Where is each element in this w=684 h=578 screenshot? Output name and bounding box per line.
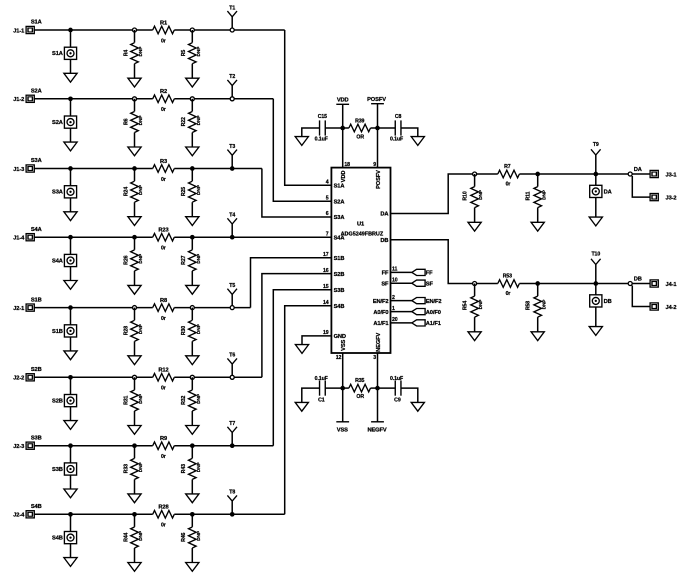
- wire pin DB to output row: [391, 240, 498, 284]
- resistor R28 DNP: [123, 320, 144, 341]
- resistor R44 DNP: [123, 527, 144, 548]
- wire pin to tag A0/F0: [391, 311, 412, 313]
- wire C9 right: [401, 388, 418, 402]
- resistor R28 0r: [153, 505, 175, 529]
- wire R22 to ground: [191, 133, 193, 148]
- svg-text:T6: T6: [229, 353, 235, 359]
- svg-text:0r: 0r: [161, 316, 166, 322]
- svg-text:R26: R26: [123, 255, 129, 264]
- connector J4-2: [650, 303, 676, 311]
- wire junction to R11: [537, 174, 539, 187]
- ground: [128, 563, 141, 572]
- svg-text:C15: C15: [318, 114, 327, 120]
- node at resistor R30: [190, 306, 194, 310]
- junction T9: [593, 172, 598, 177]
- svg-text:S4B: S4B: [334, 304, 345, 310]
- wire R10 to ground: [474, 208, 476, 223]
- wire test point to ground: [595, 198, 597, 218]
- svg-text:T7: T7: [229, 421, 235, 427]
- node at resistor R26: [132, 235, 137, 240]
- wire junction to R58: [537, 284, 539, 297]
- ground at C15: [295, 137, 308, 146]
- wire node to R10: [474, 174, 476, 187]
- wire pin to tag FF: [391, 271, 412, 273]
- svg-text:VSS: VSS: [341, 339, 347, 350]
- test point T9: [591, 142, 601, 174]
- resistor R43 DNP: [181, 458, 202, 479]
- wire R44 to ground: [134, 548, 136, 563]
- svg-text:DNP: DNP: [196, 461, 202, 472]
- svg-text:FF: FF: [382, 271, 389, 277]
- svg-text:0r: 0r: [506, 181, 511, 187]
- wire series resistor to bus: [174, 307, 250, 309]
- junction: [68, 305, 73, 310]
- wire to test point: [70, 446, 72, 463]
- wire test point to ground: [70, 407, 72, 421]
- test point S1B: [52, 325, 77, 337]
- svg-text:POSFV: POSFV: [376, 170, 382, 189]
- svg-text:0r: 0r: [161, 246, 166, 252]
- svg-text:J1-2: J1-2: [13, 97, 24, 103]
- ground: [128, 285, 141, 294]
- svg-text:DNP: DNP: [196, 184, 202, 195]
- wire VSS to R35: [343, 387, 349, 389]
- resistor R9 0r: [153, 436, 175, 460]
- svg-text:T10: T10: [591, 251, 600, 257]
- svg-text:0.1uF: 0.1uF: [315, 137, 328, 143]
- ground: [128, 494, 141, 503]
- resistor R24 DNP: [123, 181, 144, 202]
- wire test point to ground: [70, 337, 72, 351]
- resistor R6 DNP: [123, 112, 144, 133]
- svg-text:0r: 0r: [506, 291, 511, 297]
- svg-text:R12: R12: [158, 368, 168, 374]
- test point S3B: [52, 463, 77, 475]
- junction T5: [230, 306, 234, 310]
- connector J4-1: [650, 280, 676, 288]
- svg-text:R30: R30: [181, 326, 187, 335]
- wire junction to test point DA: [595, 174, 597, 185]
- wire node to R27: [191, 237, 193, 250]
- svg-text:T8: T8: [229, 490, 235, 496]
- node at resistor R33: [132, 443, 137, 448]
- junction T1: [230, 28, 234, 32]
- svg-text:FF: FF: [426, 271, 433, 277]
- svg-text:DB: DB: [604, 299, 612, 305]
- wire node to R25: [191, 169, 193, 182]
- ground: [186, 563, 199, 572]
- svg-text:DNP: DNP: [196, 46, 202, 57]
- wire node to R4: [134, 30, 136, 43]
- wire R5 to ground: [191, 64, 193, 78]
- svg-text:0.1uF: 0.1uF: [390, 137, 403, 143]
- wire C1 left: [302, 388, 320, 402]
- svg-text:DNP: DNP: [196, 323, 202, 334]
- connector J2-4: [13, 511, 34, 519]
- wire R54 to ground: [474, 317, 476, 332]
- test point T2: [227, 74, 237, 99]
- node at resistor R28: [133, 306, 137, 310]
- wire test point to ground: [595, 307, 597, 327]
- svg-text:S2A: S2A: [52, 120, 63, 126]
- connector J2-1: [13, 304, 34, 312]
- wire J1-4 to series resistor: [34, 236, 153, 238]
- junction T4: [230, 235, 235, 240]
- resistor R2 0r: [153, 89, 175, 113]
- node at resistor R10: [473, 172, 477, 176]
- svg-text:POSFV: POSFV: [367, 97, 386, 103]
- wire J1-1 to series resistor: [34, 29, 153, 31]
- ground at C8: [411, 137, 424, 146]
- svg-text:SF: SF: [381, 281, 389, 287]
- svg-text:DNP: DNP: [138, 115, 144, 126]
- svg-text:J2-3: J2-3: [13, 444, 24, 450]
- svg-text:S2B: S2B: [31, 367, 42, 373]
- svg-text:R28: R28: [158, 505, 168, 511]
- wire C8 right: [401, 128, 418, 137]
- wire R6 to ground: [134, 133, 136, 148]
- wire R58 to ground: [537, 317, 539, 332]
- node at resistor R22: [190, 97, 194, 101]
- wire bus to pin S2A: [273, 99, 331, 201]
- svg-text:R8: R8: [160, 298, 167, 304]
- wire R24 to ground: [134, 202, 136, 217]
- svg-text:DB: DB: [634, 277, 642, 283]
- svg-text:C1: C1: [318, 398, 325, 404]
- node DB: [628, 282, 632, 286]
- svg-text:R27: R27: [181, 255, 187, 264]
- wire node to R44: [134, 514, 136, 527]
- resistor R12 0r: [153, 368, 175, 392]
- power flag POSFV: [367, 97, 386, 167]
- svg-text:S1A: S1A: [334, 183, 345, 189]
- wire J2-3 to series resistor: [34, 445, 153, 447]
- node at resistor R44: [132, 512, 137, 517]
- test point DA: [590, 185, 612, 197]
- junction VDD: [340, 126, 345, 131]
- svg-text:R24: R24: [123, 187, 129, 196]
- svg-text:S1B: S1B: [52, 329, 63, 335]
- junction T3: [230, 166, 235, 171]
- svg-text:R6: R6: [123, 118, 129, 125]
- svg-text:EN/F2: EN/F2: [426, 299, 442, 305]
- svg-text:OR: OR: [356, 394, 364, 400]
- connector J1-4: [13, 234, 34, 242]
- svg-text:R11: R11: [526, 191, 532, 200]
- wire to test point: [70, 30, 72, 47]
- svg-text:DNP: DNP: [138, 323, 144, 334]
- svg-text:S4A: S4A: [334, 235, 345, 241]
- wire test point to ground: [70, 60, 72, 74]
- wire branch to J3-2: [632, 176, 650, 197]
- svg-text:DNP: DNP: [478, 189, 484, 200]
- ground: [589, 217, 602, 226]
- svg-text:J1-4: J1-4: [13, 236, 25, 242]
- node at resistor R54: [473, 282, 477, 286]
- ground at C9: [411, 402, 424, 411]
- resistor R46 DNP: [181, 527, 202, 548]
- junction T8: [230, 512, 235, 517]
- node at resistor R6: [133, 97, 137, 101]
- svg-text:T9: T9: [593, 142, 599, 148]
- node at resistor R4: [133, 28, 137, 32]
- resistor R1 0r: [153, 20, 175, 44]
- capacitor C15 0.1uF: [315, 114, 328, 142]
- wire R39 to POSFV: [371, 127, 378, 129]
- svg-text:A1/F1: A1/F1: [373, 321, 388, 327]
- resistor R32 DNP: [181, 390, 202, 411]
- wire R30 to ground: [191, 341, 193, 356]
- svg-text:R31: R31: [123, 395, 129, 404]
- svg-text:U1: U1: [357, 222, 364, 228]
- wire pin to tag SF: [391, 282, 412, 284]
- wire node to R26: [134, 237, 136, 250]
- svg-text:DNP: DNP: [541, 189, 547, 200]
- svg-text:NEGFV: NEGFV: [376, 332, 382, 351]
- wire branch to J4-2: [632, 286, 650, 307]
- test point T3: [227, 144, 237, 169]
- wire R4 to ground: [134, 64, 136, 78]
- connector J1-3: [13, 165, 34, 173]
- test point T1: [227, 5, 237, 30]
- svg-text:R53: R53: [503, 273, 512, 279]
- connector J3-2: [650, 194, 676, 202]
- svg-text:VDD: VDD: [341, 171, 347, 183]
- wire J2-4 to series resistor: [34, 513, 153, 515]
- junction T10: [593, 281, 598, 286]
- test point T4: [227, 213, 237, 238]
- svg-text:S2B: S2B: [52, 399, 63, 405]
- connector J1-1: [13, 26, 34, 34]
- svg-text:S2A: S2A: [31, 89, 42, 95]
- off-page tag SF: [412, 280, 434, 287]
- resistor R7 0r: [498, 164, 520, 188]
- resistor R31 DNP: [123, 390, 144, 411]
- test point S4B: [52, 532, 77, 544]
- wire node to R32: [191, 377, 193, 390]
- wire bus to pin S1A: [285, 30, 332, 185]
- capacitor C1 0.1uF: [315, 376, 328, 404]
- svg-text:T2: T2: [229, 74, 235, 80]
- wire bus to pin S2B: [262, 274, 332, 378]
- wire bus to pin S4A: [251, 236, 332, 238]
- wire node to R33: [134, 446, 136, 459]
- wire C1 right: [325, 387, 342, 389]
- node at resistor R43: [190, 443, 195, 448]
- node at resistor R25: [190, 166, 195, 171]
- ground: [64, 73, 77, 82]
- resistor R10 DNP: [463, 187, 485, 208]
- junction at R11: [535, 172, 540, 177]
- svg-text:DNP: DNP: [138, 253, 144, 264]
- svg-text:0r: 0r: [161, 386, 166, 392]
- ground: [128, 78, 141, 87]
- svg-text:S3B: S3B: [31, 435, 42, 441]
- svg-text:A0/F0: A0/F0: [373, 310, 388, 316]
- wire R46 to ground: [191, 548, 193, 563]
- wire pin DA to output row: [391, 174, 498, 214]
- svg-text:17: 17: [323, 252, 329, 258]
- svg-text:S3A: S3A: [52, 190, 63, 196]
- svg-text:S1B: S1B: [31, 297, 42, 303]
- svg-text:6: 6: [326, 211, 329, 217]
- svg-text:R2: R2: [160, 89, 167, 95]
- svg-text:R54: R54: [463, 301, 469, 310]
- resistor R3 0r: [153, 159, 175, 183]
- ground: [64, 281, 77, 290]
- svg-text:C9: C9: [394, 398, 401, 404]
- wire R27 to ground: [191, 271, 193, 286]
- svg-text:4: 4: [326, 179, 329, 185]
- wire node to R31: [134, 377, 136, 390]
- svg-text:S4B: S4B: [52, 536, 63, 542]
- svg-text:T5: T5: [229, 283, 235, 289]
- svg-text:DNP: DNP: [196, 393, 202, 404]
- svg-text:R46: R46: [181, 532, 187, 541]
- node at resistor R5: [190, 28, 194, 32]
- wire node to R22: [191, 99, 193, 112]
- resistor R33 DNP: [123, 458, 144, 479]
- junction: [68, 512, 73, 517]
- wire node to R46: [191, 514, 193, 527]
- svg-text:R28: R28: [123, 326, 129, 335]
- svg-text:R33: R33: [123, 464, 129, 473]
- wire series resistor to bus: [174, 98, 273, 100]
- ground: [128, 147, 141, 156]
- svg-text:15: 15: [323, 284, 329, 290]
- node at resistor R31: [133, 375, 137, 379]
- test point T10: [591, 251, 601, 283]
- svg-text:R35: R35: [355, 378, 364, 384]
- svg-text:0r: 0r: [161, 38, 166, 44]
- svg-text:R39: R39: [355, 118, 364, 124]
- wire R26 to ground: [134, 271, 136, 286]
- svg-text:R9: R9: [160, 436, 167, 442]
- wire VDD to R39: [343, 127, 349, 129]
- svg-text:J2-2: J2-2: [13, 376, 24, 382]
- svg-text:3: 3: [373, 355, 376, 361]
- connector J2-3: [13, 442, 34, 450]
- resistor R11 DNP: [526, 187, 548, 208]
- svg-text:NEGFV: NEGFV: [367, 428, 386, 434]
- svg-text:R10: R10: [463, 191, 469, 200]
- svg-text:18: 18: [344, 162, 350, 168]
- wire pin to tag A1/F1: [391, 322, 412, 324]
- resistor R4 DNP: [123, 43, 144, 64]
- svg-text:ADG5249FBRUZ: ADG5249FBRUZ: [341, 231, 384, 237]
- ground: [186, 426, 199, 435]
- svg-text:R43: R43: [181, 464, 187, 473]
- wire bus to pin S3B: [273, 290, 331, 446]
- connector J1-2: [13, 95, 34, 103]
- ground: [128, 426, 141, 435]
- ground: [186, 147, 199, 156]
- svg-text:S4B: S4B: [31, 504, 42, 510]
- wire R28 to ground: [134, 341, 136, 356]
- junction: [68, 28, 73, 33]
- resistor R58 DNP: [526, 296, 548, 317]
- wire junction to test point DB: [595, 284, 597, 295]
- wire series resistor to bus: [174, 236, 250, 238]
- ground: [64, 142, 77, 151]
- resistor R26 DNP: [123, 250, 144, 271]
- junction: [68, 96, 73, 101]
- svg-text:S1A: S1A: [52, 51, 63, 57]
- wire test point to ground: [70, 128, 72, 142]
- svg-text:0r: 0r: [161, 177, 166, 183]
- svg-text:R22: R22: [181, 117, 187, 126]
- wire bus to pin S4B: [285, 306, 332, 515]
- svg-text:R1: R1: [160, 20, 167, 26]
- wire test point to ground: [70, 198, 72, 212]
- test point S3A: [52, 186, 77, 198]
- wire J1-3 to series resistor: [34, 168, 153, 170]
- wire J2-1 to series resistor: [34, 307, 153, 309]
- off-page tag FF: [412, 269, 433, 276]
- test point S2B: [52, 395, 77, 407]
- wire J2-2 to series resistor: [34, 376, 153, 378]
- wire C15 left: [302, 128, 320, 137]
- svg-text:A0/F0: A0/F0: [426, 310, 441, 316]
- svg-text:J4-1: J4-1: [666, 282, 677, 288]
- power flag NEGFV: [367, 353, 386, 434]
- junction T2: [230, 97, 234, 101]
- wire C9 left: [378, 387, 396, 389]
- wire R43 to ground: [191, 479, 193, 494]
- ground: [186, 285, 199, 294]
- power flag VDD: [336, 98, 349, 168]
- wire to test point: [70, 308, 72, 325]
- ground: [468, 222, 481, 231]
- svg-text:A1/F1: A1/F1: [426, 321, 441, 327]
- ground: [64, 489, 77, 498]
- wire R35 to NEGFV: [371, 387, 378, 389]
- test point T5: [227, 283, 237, 308]
- svg-text:DNP: DNP: [196, 253, 202, 264]
- svg-text:T1: T1: [229, 5, 235, 11]
- wire R31 to ground: [134, 411, 136, 426]
- resistor R30 DNP: [181, 320, 202, 341]
- svg-text:R58: R58: [526, 301, 532, 310]
- svg-text:VDD: VDD: [337, 98, 349, 104]
- junction NEGFV: [375, 386, 380, 391]
- wire node to R30: [191, 308, 193, 321]
- pin 19 GND wire: [302, 336, 331, 345]
- svg-text:DA: DA: [604, 189, 612, 195]
- wire C8 left: [378, 127, 396, 129]
- connector J3-1: [650, 170, 676, 178]
- svg-text:R4: R4: [123, 50, 129, 57]
- wire R53 to output DB: [519, 283, 650, 285]
- svg-text:T4: T4: [229, 213, 235, 219]
- node at resistor R32: [190, 375, 194, 379]
- junction: [68, 375, 73, 380]
- svg-text:DNP: DNP: [138, 184, 144, 195]
- ground: [64, 421, 77, 430]
- svg-text:GND: GND: [334, 334, 346, 340]
- test point S4A: [52, 254, 77, 266]
- svg-text:DNP: DNP: [478, 299, 484, 310]
- svg-text:S4A: S4A: [52, 258, 63, 264]
- svg-text:R7: R7: [504, 164, 511, 170]
- svg-text:DB: DB: [380, 238, 388, 244]
- ground: [128, 356, 141, 365]
- svg-text:J2-1: J2-1: [13, 306, 24, 312]
- test point S1A: [52, 47, 77, 59]
- wire series resistor to bus: [174, 168, 262, 170]
- svg-text:S3A: S3A: [31, 158, 42, 164]
- node at resistor R46: [190, 512, 195, 517]
